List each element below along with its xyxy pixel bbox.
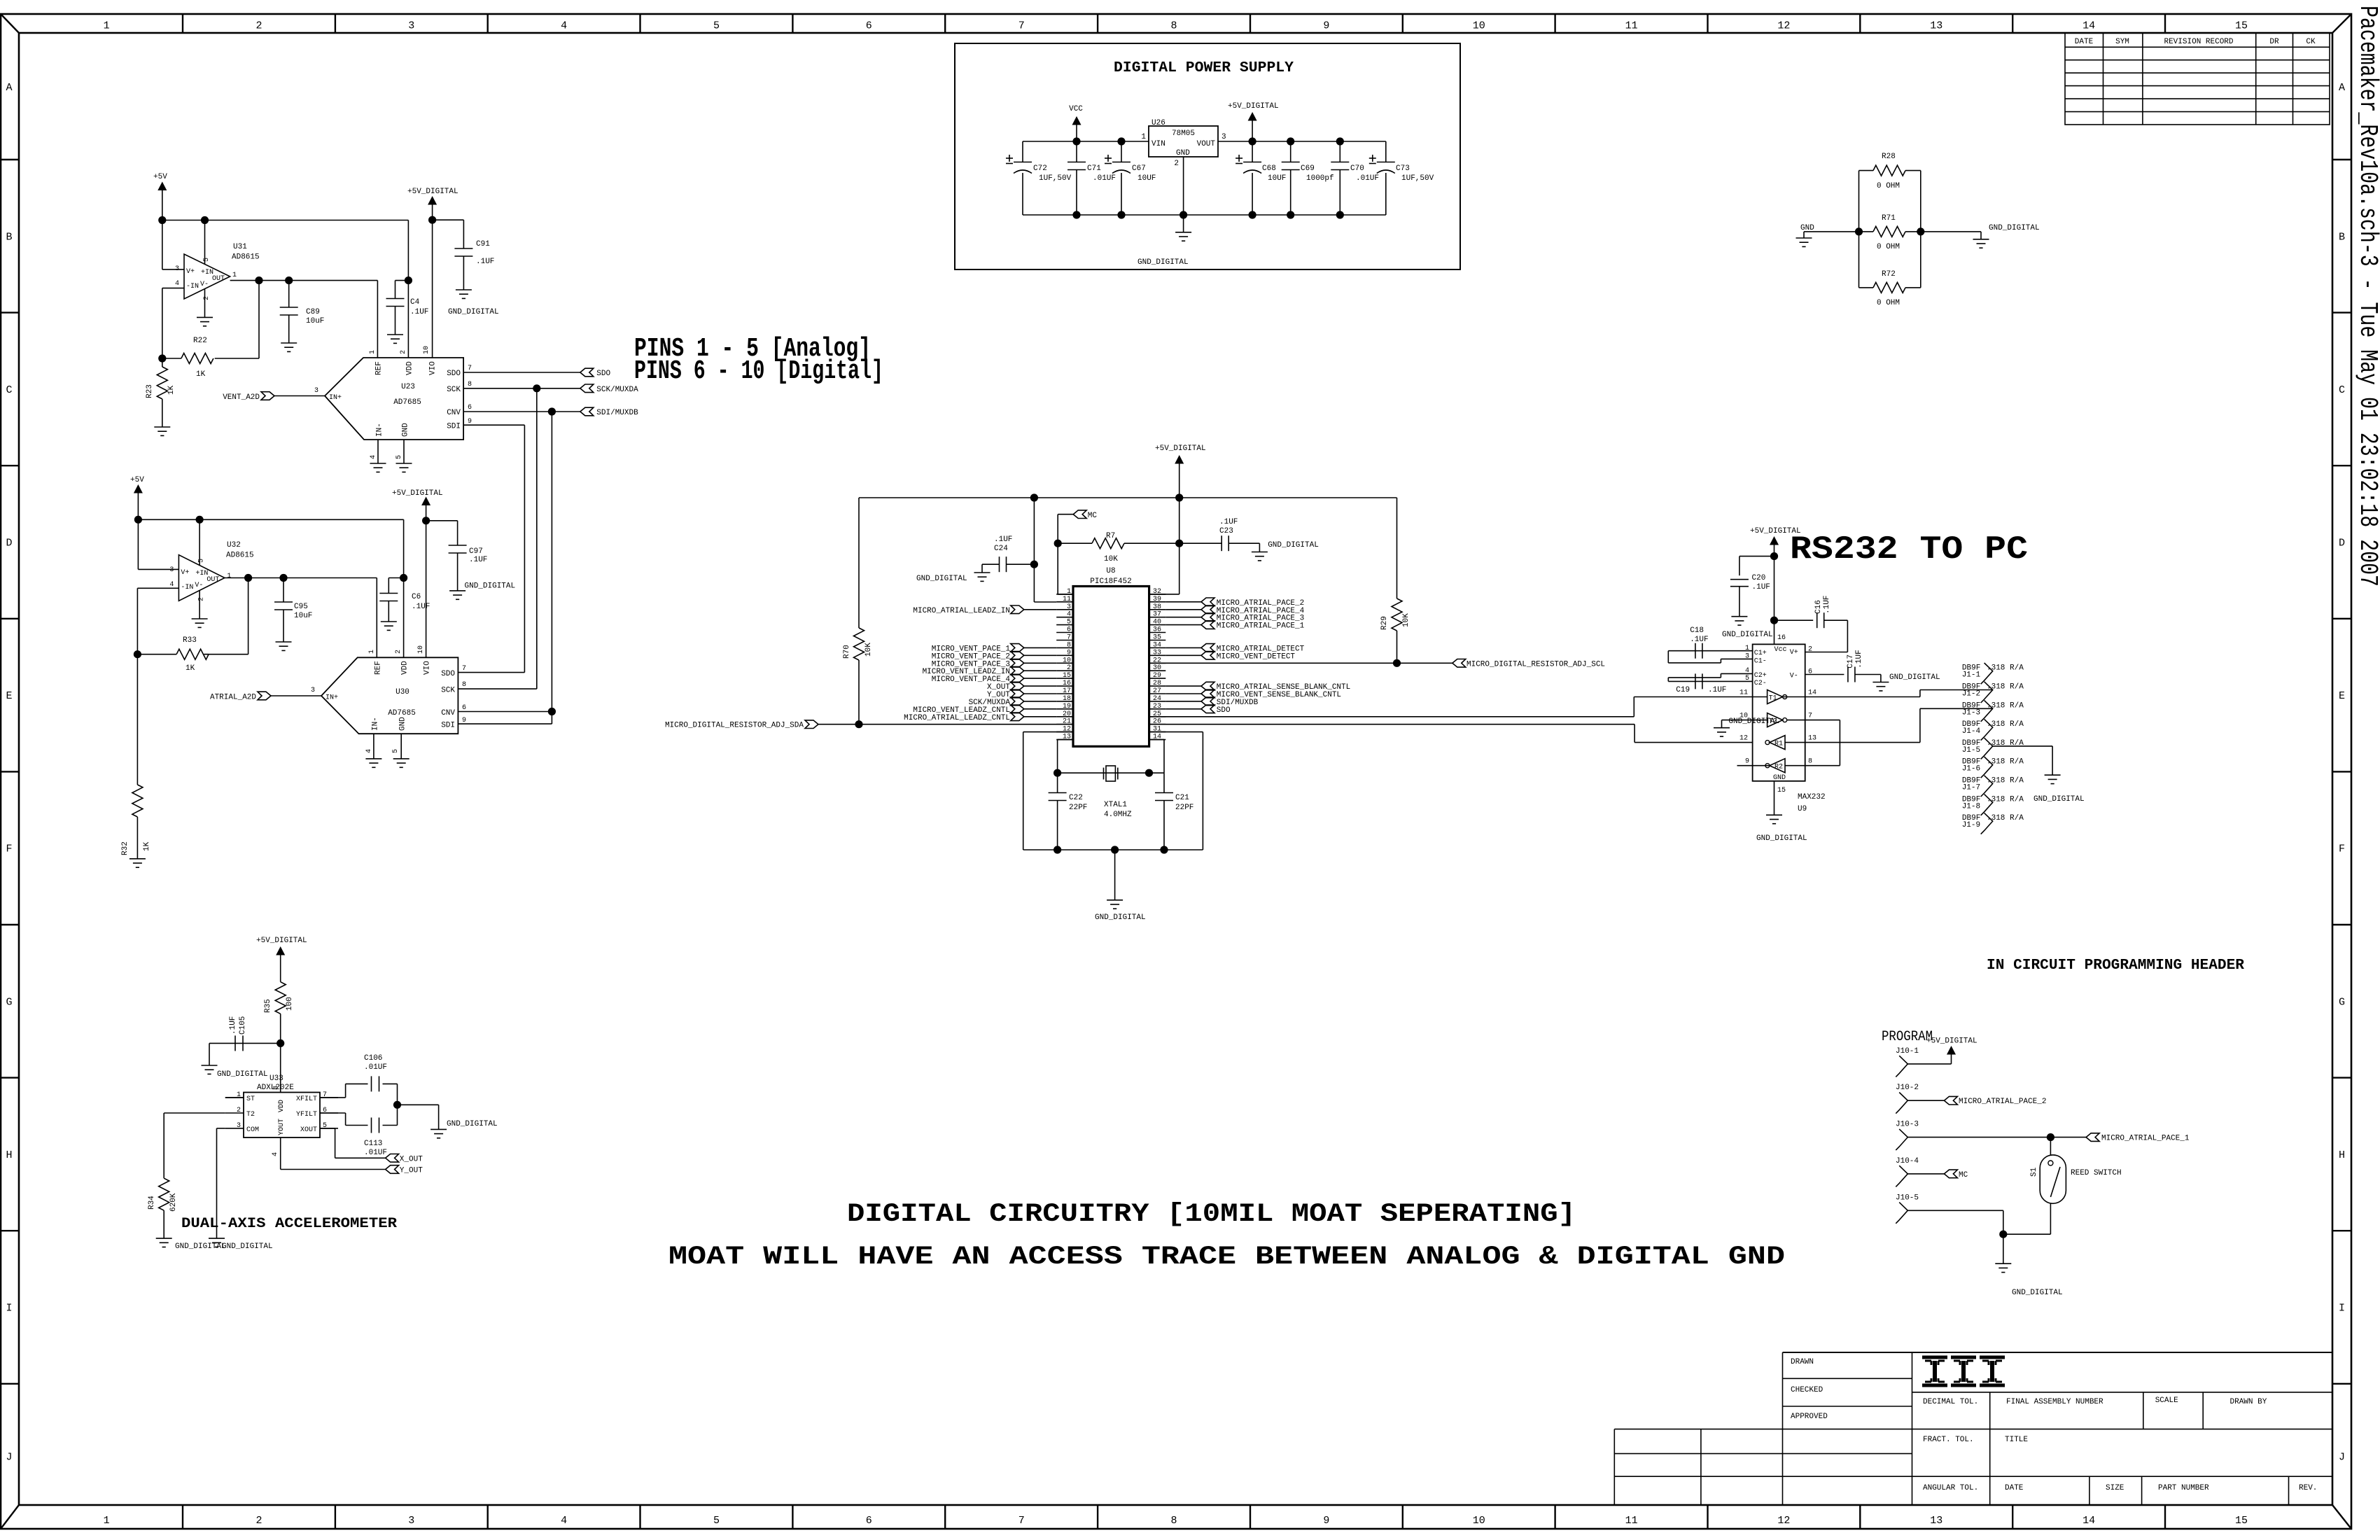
svg-text:ST: ST — [246, 1095, 255, 1103]
wire U30 IN- to ground — [373, 734, 374, 759]
net flag MICRO_VENT_PACE_2 — [932, 652, 1056, 661]
svg-text:.318 R/A: .318 R/A — [1987, 701, 2024, 710]
svg-text:GND_DIGITAL: GND_DIGITAL — [2012, 1289, 2063, 1297]
svg-text:S1: S1 — [2030, 1167, 2038, 1177]
svg-text:1: 1 — [369, 350, 377, 354]
microcontroller U8 PIC18F452 — [1056, 567, 1165, 746]
ground (U23 IN-) — [370, 463, 386, 472]
svg-text:+5V: +5V — [130, 476, 144, 484]
svg-text:9: 9 — [1323, 1515, 1329, 1527]
wire crystal ground rail — [1023, 846, 1203, 853]
svg-text:GND: GND — [399, 717, 407, 731]
svg-text:VDD: VDD — [406, 361, 414, 375]
svg-text:0 OHM: 0 OHM — [1877, 243, 1900, 251]
svg-text:23: 23 — [1153, 703, 1161, 710]
net flag MICRO_VENT_PACE_3 — [932, 659, 1056, 669]
svg-text:27: 27 — [1153, 687, 1161, 695]
ground GND_DIGITAL (power supply) — [1137, 215, 1191, 267]
wire PIC pin13 to XTAL1 — [1058, 740, 1073, 773]
svg-text:J1-7: J1-7 — [1962, 784, 1980, 792]
svg-text:6: 6 — [462, 704, 466, 712]
svg-text:VIN: VIN — [1151, 140, 1165, 148]
svg-text:10: 10 — [1473, 20, 1485, 32]
svg-text:12: 12 — [1777, 20, 1790, 32]
svg-text:VDD: VDD — [401, 661, 409, 675]
svg-text:5: 5 — [197, 559, 205, 563]
resistor R35 100 — [264, 982, 294, 1047]
op-amp U31 AD8615 — [175, 243, 260, 300]
svg-text:11: 11 — [1625, 20, 1638, 32]
svg-text:OUT: OUT — [206, 576, 219, 584]
net flag MICRO_ATRIAL_PACE_2 (PIC) — [1165, 598, 1304, 608]
svg-text:2: 2 — [1067, 664, 1071, 672]
svg-text:FINAL ASSEMBLY NUMBER: FINAL ASSEMBLY NUMBER — [2006, 1398, 2103, 1406]
svg-text:29: 29 — [1153, 672, 1161, 680]
svg-text:AD7685: AD7685 — [388, 709, 416, 717]
net flag MICRO_ATRIAL_DETECT — [1165, 644, 1304, 654]
net flag MICRO_ATRIAL_SENSE_BLANK_CNTL — [1165, 682, 1350, 692]
svg-text:+5V_DIGITAL: +5V_DIGITAL — [1926, 1037, 1977, 1046]
svg-text:ATRIAL_A2D: ATRIAL_A2D — [210, 694, 256, 702]
wire U23 SCK — [463, 384, 580, 392]
svg-text:MICRO_DIGITAL_RESISTOR_ADJ_SCL: MICRO_DIGITAL_RESISTOR_ADJ_SCL — [1466, 660, 1605, 668]
svg-text:J10-3: J10-3 — [1896, 1121, 1919, 1129]
svg-text:22PF: 22PF — [1069, 804, 1087, 812]
svg-text:GND_DIGITAL: GND_DIGITAL — [448, 308, 499, 316]
svg-text:0 OHM: 0 OHM — [1877, 299, 1900, 307]
svg-text:V-: V- — [200, 281, 209, 288]
connector pin J10-2 — [1896, 1084, 1919, 1114]
svg-text:C72: C72 — [1033, 164, 1047, 173]
svg-text:8: 8 — [462, 681, 466, 689]
svg-text:1000pf: 1000pf — [1306, 174, 1334, 183]
reed switch S1 — [2003, 1137, 2122, 1235]
svg-text:30: 30 — [1153, 664, 1161, 672]
revision record table — [2065, 33, 2330, 125]
svg-text:11: 11 — [1739, 689, 1748, 697]
ground GND_DIGITAL (C20) — [1722, 617, 1773, 639]
wire VIO stub U23 — [432, 220, 433, 358]
svg-text:13: 13 — [1930, 20, 1942, 32]
capacitor C23 .1UF — [1179, 518, 1260, 552]
svg-text:REVISION RECORD: REVISION RECORD — [2164, 38, 2233, 46]
svg-text:YOUT: YOUT — [278, 1119, 286, 1135]
wire op-amp U32 V+ to +5V — [138, 519, 178, 569]
wire J10-5 to ground — [1907, 1210, 2007, 1263]
net flag MICRO_ATRIAL_LEADZ_CNTL — [904, 713, 1056, 722]
net flag MICRO_VENT_LEADZ_IN — [923, 666, 1057, 676]
svg-text:SDI: SDI — [441, 722, 455, 730]
svg-text:2: 2 — [197, 597, 205, 601]
ground GND_DIGITAL (MAX232) — [1756, 815, 1807, 843]
svg-text:R72: R72 — [1882, 270, 1896, 279]
svg-text:.1UF: .1UF — [1690, 636, 1708, 644]
capacitor C105 .1UF — [209, 1016, 281, 1065]
wire U23 IN- to ground — [377, 440, 379, 463]
ground (U31 pin2) — [197, 317, 213, 325]
svg-text:33: 33 — [1153, 649, 1161, 657]
svg-text:IN-: IN- — [376, 423, 384, 437]
svg-text:8: 8 — [273, 1086, 281, 1090]
svg-text:12: 12 — [1777, 1515, 1790, 1527]
voltage regulator U26 78M05 — [1141, 119, 1226, 168]
svg-text:R35: R35 — [264, 999, 272, 1013]
wire U30 SDI — [458, 723, 552, 724]
svg-text:3: 3 — [169, 566, 174, 574]
svg-text:VENT_A2D: VENT_A2D — [223, 393, 260, 402]
svg-text:.1UF: .1UF — [476, 258, 494, 266]
svg-text:13: 13 — [1930, 1515, 1942, 1527]
svg-text:GND_DIGITAL: GND_DIGITAL — [447, 1120, 498, 1128]
ground (U30 IN-) — [365, 759, 381, 767]
svg-text:GND_DIGITAL: GND_DIGITAL — [2033, 795, 2085, 804]
wire U32 pin2 to ground — [199, 591, 200, 619]
capacitor C73 — [1369, 141, 1434, 215]
svg-text:620K: 620K — [169, 1193, 178, 1212]
svg-text:.318 R/A: .318 R/A — [1987, 814, 2024, 822]
svg-text:H: H — [6, 1149, 12, 1161]
svg-text:GND: GND — [1176, 149, 1190, 157]
title DUAL-AXIS ACCELEROMETER — [181, 1216, 397, 1232]
svg-text:GND: GND — [402, 423, 410, 437]
wire U30 SCK — [458, 688, 536, 689]
svg-text:J1-5: J1-5 — [1962, 746, 1980, 755]
capacitor C68 — [1235, 141, 1286, 215]
svg-text:1: 1 — [368, 650, 376, 654]
svg-text:DRAWN BY: DRAWN BY — [2230, 1398, 2267, 1406]
svg-text:DIGITAL POWER SUPPLY: DIGITAL POWER SUPPLY — [1114, 60, 1294, 76]
svg-text:U9: U9 — [1798, 805, 1807, 813]
note text PINS 1 - 5 [Analog] — [634, 334, 871, 364]
wire U23 GND pin to ground — [403, 440, 405, 463]
text PROGRAM — [1882, 1029, 1933, 1045]
svg-text:-IN: -IN — [181, 584, 193, 591]
wire U23 SDI down — [463, 425, 524, 672]
ground (R23) — [154, 427, 170, 435]
svg-text:J1-4: J1-4 — [1962, 727, 1981, 736]
svg-text:10K: 10K — [1402, 613, 1410, 627]
resistor R7 10K — [1058, 532, 1179, 563]
svg-text:.1UF: .1UF — [994, 535, 1012, 544]
resistor R22 1K — [162, 337, 213, 379]
wire crystal row — [1053, 769, 1164, 777]
sheet title vertical text — [2353, 6, 2380, 587]
svg-text:R70: R70 — [843, 645, 851, 659]
svg-text:SCK/MUXDA: SCK/MUXDA — [596, 386, 638, 394]
svg-text:REF: REF — [374, 661, 382, 675]
svg-text:.01UF: .01UF — [364, 1063, 387, 1072]
ground (U23 GND) — [396, 463, 412, 472]
capacitor C70 — [1331, 141, 1379, 215]
svg-text:E: E — [6, 690, 12, 702]
svg-text:1: 1 — [104, 1515, 110, 1527]
svg-text:+5V_DIGITAL: +5V_DIGITAL — [1228, 102, 1279, 111]
net flag X_OUT (PIC) — [987, 682, 1056, 692]
svg-text:C18: C18 — [1690, 626, 1704, 635]
capacitor C24 .1UF — [982, 498, 1038, 573]
svg-text:H: H — [2339, 1149, 2345, 1161]
net flag MICRO_VENT_PACE_4 — [932, 674, 1056, 684]
svg-text:1UF,50V: 1UF,50V — [1401, 174, 1434, 183]
wire PIC pin12 to crystal loop — [1023, 732, 1073, 850]
ground (C6) — [381, 622, 397, 630]
net flag MICRO_ATRIAL_PACE_2 (J10-2) — [1907, 1096, 2046, 1106]
wire op-amp V+ to +5V — [162, 220, 184, 269]
ground GND (analog) — [1796, 224, 1815, 246]
svg-text:C22: C22 — [1069, 794, 1083, 802]
net flag VENT_A2D — [223, 392, 274, 402]
svg-text:C68: C68 — [1262, 164, 1276, 173]
net flag MICRO_DIGITAL_RESISTOR_ADJ_SCL — [1452, 659, 1605, 669]
svg-text:R32: R32 — [121, 841, 129, 855]
wire R1 input pin13 to J1-3 — [1785, 708, 1993, 742]
svg-text:39: 39 — [1153, 596, 1161, 603]
svg-text:C6: C6 — [412, 593, 421, 601]
svg-text:10UF: 10UF — [1137, 174, 1156, 183]
power flag +5V_DIGITAL (MAX232) — [1750, 527, 1801, 624]
svg-text:2: 2 — [237, 1107, 241, 1114]
net flag MICRO_DIGITAL_RESISTOR_ADJ_SDA — [665, 720, 818, 730]
svg-text:MOAT WILL HAVE AN ACCESS TRACE: MOAT WILL HAVE AN ACCESS TRACE BETWEEN A… — [668, 1242, 1785, 1272]
wire PIC pin22 to MICRO_DIGITAL_RESISTOR_ADJ_SCL — [1149, 659, 1452, 667]
svg-text:DECIMAL TOL.: DECIMAL TOL. — [1923, 1398, 1978, 1406]
svg-text:J1-3: J1-3 — [1962, 708, 1980, 717]
svg-text:5: 5 — [395, 455, 403, 459]
title block field labels — [1791, 1358, 2317, 1492]
svg-text:YFILT: YFILT — [296, 1111, 317, 1119]
svg-text:U33: U33 — [269, 1074, 283, 1083]
svg-text:7: 7 — [468, 365, 472, 372]
svg-text:SDO: SDO — [441, 670, 455, 678]
svg-text:5: 5 — [203, 258, 211, 262]
wire XFILT to C106 — [320, 1084, 368, 1098]
svg-text:14: 14 — [2082, 1515, 2095, 1527]
svg-text:15: 15 — [1777, 787, 1786, 794]
svg-text:PROGRAM: PROGRAM — [1882, 1029, 1933, 1045]
net flag MICRO_ATRIAL_LEADZ_IN — [913, 605, 1056, 615]
svg-text:GND_DIGITAL: GND_DIGITAL — [217, 1070, 268, 1079]
wire -IN node — [158, 288, 184, 363]
svg-text:DR: DR — [2269, 38, 2279, 46]
svg-text:C20: C20 — [1752, 574, 1766, 582]
svg-text:J10-4: J10-4 — [1896, 1157, 1919, 1165]
ground GND_DIGITAL (C105) — [202, 1065, 268, 1079]
svg-text:.318 R/A: .318 R/A — [1987, 795, 2024, 804]
power flag +5V_DIGITAL (J10-1) — [1907, 1037, 1977, 1064]
wire C16 to V+ pin2 — [1805, 620, 1848, 652]
svg-text:10K: 10K — [864, 643, 873, 657]
wire ST stub — [225, 1097, 244, 1098]
svg-text:R23: R23 — [146, 384, 154, 398]
svg-text:SCK: SCK — [447, 386, 461, 394]
svg-text:V+: V+ — [1790, 649, 1798, 657]
svg-text:VOUT: VOUT — [1197, 140, 1216, 148]
svg-text:4: 4 — [175, 280, 179, 288]
svg-text:REF: REF — [375, 361, 384, 375]
resistor R28 0 OHM — [1859, 153, 1921, 190]
ground GND_DIGITAL (C23) — [1252, 541, 1319, 561]
svg-text:1K: 1K — [143, 841, 151, 851]
ground GND_DIGITAL (R34) — [156, 1238, 226, 1251]
svg-text:R2: R2 — [1774, 764, 1783, 771]
resistor R72 0 OHM — [1859, 270, 1921, 307]
svg-text:VIO: VIO — [429, 361, 437, 375]
svg-text:APPROVED: APPROVED — [1791, 1413, 1828, 1421]
svg-text:XFILT: XFILT — [296, 1095, 317, 1103]
svg-text:R22: R22 — [193, 337, 207, 345]
svg-text:10: 10 — [417, 645, 425, 654]
net flag SCK/MUXDA — [580, 384, 638, 394]
svg-text:16: 16 — [1063, 680, 1071, 687]
svg-text:.318 R/A: .318 R/A — [1987, 777, 2024, 785]
svg-text:C70: C70 — [1350, 164, 1364, 173]
note text DIGITAL CIRCUITRY — [847, 1200, 1576, 1229]
wire VIO stub U30 — [426, 521, 427, 658]
wire T1 output pin14 to J1-2 — [1783, 690, 1993, 697]
company logo ITI — [1922, 1357, 2005, 1385]
power flag +5V_DIGITAL (accel) — [256, 937, 307, 982]
net flag MC (PIC) — [1073, 510, 1097, 520]
svg-text:+5V_DIGITAL: +5V_DIGITAL — [256, 937, 307, 945]
svg-text:MC: MC — [1088, 512, 1098, 520]
svg-text:SCK: SCK — [441, 687, 455, 695]
ground GND_DIGITAL (pin10) — [1714, 717, 1779, 736]
title IN CIRCUIT PROGRAMMING HEADER — [1987, 958, 2244, 974]
svg-text:0 OHM: 0 OHM — [1877, 182, 1900, 190]
svg-text:1K: 1K — [196, 370, 206, 379]
svg-text:6: 6 — [1067, 626, 1071, 634]
wire filter junction to ground — [393, 1084, 439, 1129]
svg-text:14: 14 — [2082, 20, 2095, 32]
connector pin J10-5 — [1896, 1193, 1919, 1224]
svg-text:J10-2: J10-2 — [1896, 1084, 1919, 1092]
svg-text:DUAL-AXIS ACCELEROMETER: DUAL-AXIS ACCELEROMETER — [181, 1216, 397, 1232]
svg-text:3: 3 — [237, 1122, 241, 1130]
capacitor C20 .1UF — [1730, 556, 1774, 617]
op-amp U32 AD8615 — [169, 541, 253, 601]
ground GND_DIGITAL (C97) — [449, 582, 515, 600]
svg-text:1: 1 — [1067, 588, 1071, 596]
svg-text:AD8615: AD8615 — [232, 253, 260, 262]
svg-text:GND_DIGITAL: GND_DIGITAL — [1722, 631, 1773, 639]
wire Vcc pin16 stem — [1774, 620, 1786, 644]
svg-text:I: I — [6, 1303, 12, 1315]
svg-text:13: 13 — [1808, 735, 1816, 743]
wire U31 output — [230, 276, 378, 284]
svg-text:XOUT: XOUT — [300, 1126, 317, 1134]
svg-text:C2-: C2- — [1754, 680, 1767, 687]
svg-text:CHECKED: CHECKED — [1791, 1386, 1823, 1394]
connector pin J10-4 — [1896, 1157, 1919, 1187]
svg-text:C2+: C2+ — [1754, 672, 1767, 680]
capacitor C69 — [1282, 141, 1334, 215]
svg-text:C24: C24 — [994, 545, 1008, 553]
svg-text:20: 20 — [1063, 710, 1071, 718]
ground (U30 GND) — [393, 759, 409, 767]
svg-text:+5V_DIGITAL: +5V_DIGITAL — [1750, 527, 1801, 535]
svg-text:11: 11 — [1063, 596, 1071, 603]
svg-text:3: 3 — [408, 1515, 414, 1527]
svg-text:10: 10 — [1063, 657, 1071, 664]
svg-text:+5V_DIGITAL: +5V_DIGITAL — [407, 188, 458, 196]
connector pin J1-2 DB9F — [1962, 682, 2024, 703]
svg-text:7: 7 — [1067, 634, 1071, 642]
net flag MICRO_VENT_SENSE_BLANK_CNTL — [1165, 689, 1341, 699]
net flag SDO (PIC) — [1165, 705, 1231, 715]
net flag Y_OUT (PIC) — [987, 689, 1056, 699]
title DIGITAL POWER SUPPLY — [1114, 60, 1294, 76]
svg-text:E: E — [2339, 690, 2345, 702]
svg-text:GND_DIGITAL: GND_DIGITAL — [465, 582, 516, 591]
wire J1-5 to ground — [1993, 746, 2052, 775]
svg-text:11: 11 — [1625, 1515, 1638, 1527]
svg-text:22PF: 22PF — [1175, 804, 1193, 812]
svg-text:COM: COM — [246, 1126, 259, 1134]
svg-text:.1UF: .1UF — [1219, 518, 1238, 526]
svg-text:SDI/MUXDB: SDI/MUXDB — [596, 409, 638, 417]
svg-text:12: 12 — [1739, 735, 1748, 743]
wire T2 to R34 — [164, 1113, 225, 1178]
svg-text:J: J — [6, 1451, 12, 1463]
svg-text:T1: T1 — [1769, 695, 1777, 703]
svg-text:B: B — [6, 231, 12, 243]
capacitor C106 .01UF — [364, 1054, 398, 1091]
svg-text:.1UF: .1UF — [469, 556, 487, 564]
wire R2 input stub pin9 — [1737, 765, 1770, 766]
svg-text:DATE: DATE — [2075, 38, 2094, 46]
wire T2 input pin10 to ground — [1722, 720, 1767, 728]
svg-text:2: 2 — [395, 650, 402, 654]
svg-text:C67: C67 — [1132, 164, 1146, 173]
svg-text:D: D — [2339, 538, 2345, 549]
svg-text:.1UF: .1UF — [1855, 650, 1863, 668]
wire U31 pin5 to rail — [204, 220, 206, 265]
svg-text:C17: C17 — [1847, 654, 1855, 668]
wire ATRIAL_A2D to IN+ — [271, 695, 321, 696]
svg-text:R7: R7 — [1106, 532, 1115, 540]
wire REF stub U30 — [376, 578, 377, 658]
svg-text:1K: 1K — [185, 664, 195, 673]
connector pin J1-8 DB9F — [1962, 794, 2024, 815]
svg-text:GND_DIGITAL: GND_DIGITAL — [222, 1242, 273, 1251]
svg-text:2: 2 — [255, 20, 262, 32]
svg-text:MICRO_VENT_DETECT: MICRO_VENT_DETECT — [1217, 652, 1296, 661]
wire T2 output pin7 loop to R2 pin8 — [1785, 720, 1840, 766]
svg-text:14: 14 — [1808, 689, 1816, 697]
net flag MICRO_ATRIAL_PACE_3 — [1165, 613, 1304, 623]
svg-text:28: 28 — [1153, 680, 1161, 687]
svg-text:C73: C73 — [1396, 164, 1410, 173]
svg-text:7: 7 — [1018, 20, 1025, 32]
svg-text:MICRO_ATRIAL_PACE_1: MICRO_ATRIAL_PACE_1 — [1217, 622, 1305, 631]
power flag +5V_DIGITAL (U30) — [392, 489, 443, 524]
ground (R32) — [129, 859, 146, 867]
capacitor C71 — [1067, 141, 1116, 215]
svg-text:FRACT. TOL.: FRACT. TOL. — [1923, 1436, 1974, 1444]
resistor R33 1K — [137, 636, 209, 673]
svg-text:V+: V+ — [186, 268, 195, 276]
resistor R71 0 OHM — [1859, 214, 1921, 251]
title RS232 TO PC — [1790, 531, 2028, 568]
svg-text:9: 9 — [1067, 649, 1071, 657]
wire to GND_DIGITAL — [1921, 232, 1981, 239]
svg-text:.1UF: .1UF — [1708, 686, 1726, 694]
wire XOUT to X_OUT flag — [320, 1128, 386, 1158]
svg-text:CNV: CNV — [447, 409, 461, 417]
svg-text:36: 36 — [1153, 626, 1161, 634]
capacitor C72 — [1006, 141, 1072, 215]
ground GND_DIGITAL (C17) — [1872, 673, 1940, 691]
